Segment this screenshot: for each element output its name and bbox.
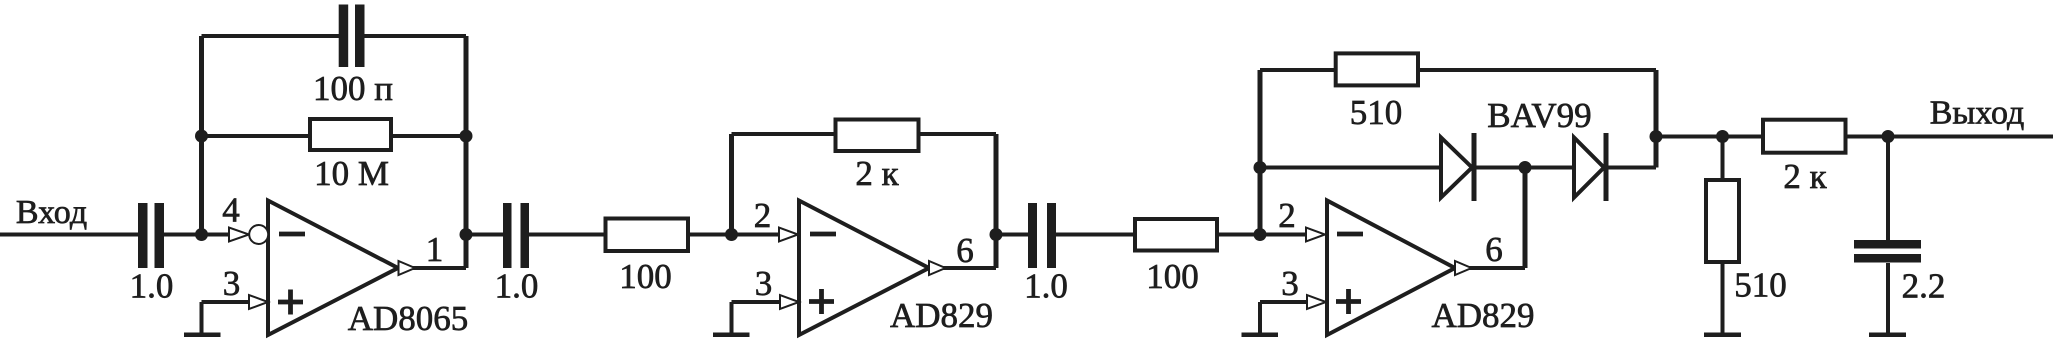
output arrow U1 [399,261,416,275]
svg-text:2: 2 [754,196,772,235]
plus sign U3 [1336,299,1361,304]
wire U2 feedback left vertical [729,134,734,235]
plus sign U1 [278,300,303,305]
capacitor C4 1.0 [1028,203,1037,268]
wire stage2 to C4 [996,233,1029,237]
pin 3 arrow U2 [780,295,799,309]
node junction dot R6 top [1716,130,1729,143]
pin 4 arrow [229,228,249,242]
wire top feedback left segment [202,34,341,38]
ground R6 [1704,333,1741,338]
output arrow U3 [1455,261,1472,275]
node junction dot U2 output [990,228,1003,241]
wire C5 to ground [1886,263,1890,333]
output arrow U2 [929,261,946,275]
resistor R1 10 М [310,119,391,150]
resistor R3 2 к [836,120,919,152]
svg-text:10 М: 10 М [314,154,389,193]
wire R4 to U3 [1219,233,1308,237]
svg-text:1: 1 [426,230,444,269]
wire U3 output [1468,266,1525,270]
resistor R4 100 [1135,219,1217,251]
op-amp U3 AD829 [1327,201,1455,336]
svg-text:AD8065: AD8065 [348,299,469,338]
svg-text:BAV99: BAV99 [1487,96,1591,135]
svg-text:1.0: 1.0 [495,267,539,306]
wire output line [1656,135,2053,139]
wire top feedback right segment [364,34,466,38]
wire U2 feedback top [732,132,997,136]
minus sign U1 [279,232,305,237]
svg-text:2: 2 [1278,196,1296,235]
pin 3 wire [202,300,251,304]
resistor R6 510 vertical [1721,137,1725,181]
node junction dot diode line left [1254,161,1267,174]
node junction dot output [1882,130,1895,143]
svg-text:100: 100 [619,257,672,296]
wire U3 feedback top [1260,68,1656,72]
wire U3 feedback left vertical [1258,70,1263,235]
wire U2 feedback right vertical [994,134,999,268]
svg-text:100: 100 [1146,257,1199,296]
wire C4 to R4 [1056,233,1133,237]
wire U3 output vertical [1523,168,1528,269]
wire U2 output [940,266,996,270]
capacitor C5 2.2 [1854,240,1921,249]
wire C1 to pin4 [164,233,231,237]
wire right feedback vertical [464,36,469,268]
svg-text:AD829: AD829 [1431,296,1534,335]
resistor R5 510 [1336,53,1418,85]
pin 3 arrow U3 [1307,295,1326,309]
resistor R2 100 [606,219,689,252]
node junction dot U3 input [1254,228,1267,241]
node junction dot mid-right [460,130,473,143]
wire input [0,233,140,237]
wire diode line [1260,166,1656,170]
node junction dot mid-left [195,130,208,143]
node junction dot output net left [1650,130,1663,143]
pin 3 arrow [249,295,268,309]
minus sign U3 [1337,232,1363,237]
node junction dot diode mid [1519,161,1532,174]
wire R2 to U2 [690,233,780,237]
op-amp U1 AD8065 [268,201,398,336]
op-amp U2 AD829 [799,201,929,336]
svg-text:3: 3 [1281,264,1299,303]
svg-text:6: 6 [1485,230,1503,269]
ground stage2 [730,302,734,333]
svg-text:4: 4 [222,191,240,230]
svg-text:1.0: 1.0 [1024,267,1068,306]
ground stage1 [200,302,204,333]
svg-text:100 п: 100 п [313,69,393,108]
capacitor C1 1.0 [138,203,148,268]
wire R6 to ground [1721,263,1725,333]
svg-text:6: 6 [956,231,974,270]
wire C3 to R2 [529,233,605,237]
svg-text:3: 3 [223,264,241,303]
wire mid feedback [202,134,467,138]
pin 2 arrow U3 [1306,228,1325,242]
svg-text:Выход: Выход [1930,95,2025,132]
pin 3 wire U3 [1260,300,1308,304]
node junction dot input [195,228,208,241]
wire stage1 to C3 [466,233,504,237]
svg-text:2 к: 2 к [855,154,899,193]
diode D2 [1574,138,1604,198]
svg-text:1.0: 1.0 [130,267,174,306]
ground stage3 [1258,302,1262,333]
svg-text:3: 3 [755,264,773,303]
svg-text:510: 510 [1734,266,1787,305]
pin 3 wire U2 [732,300,782,304]
resistor R7 2 к [1763,120,1846,153]
diode D1 [1441,138,1472,198]
wire right feedback vertical [1654,70,1659,168]
pin 2 arrow U2 [779,228,798,242]
ground C5 [1869,333,1906,338]
svg-text:510: 510 [1350,93,1403,132]
pin 4 inverting bubble [249,225,268,244]
svg-text:2.2: 2.2 [1902,267,1946,306]
svg-text:AD829: AD829 [890,296,993,335]
svg-text:2 к: 2 к [1783,157,1827,196]
svg-text:Вход: Вход [16,194,87,231]
wire left feedback vertical [199,36,204,235]
plus sign U2 [809,299,834,304]
minus sign U2 [810,232,836,237]
node junction dot output stage1 [460,228,473,241]
wire to capacitor C5 [1886,137,1890,242]
wire U1 output [410,266,466,270]
capacitor C2 100 п [339,5,349,68]
capacitor C3 1.0 [503,203,512,268]
node junction dot U2 input [725,228,738,241]
